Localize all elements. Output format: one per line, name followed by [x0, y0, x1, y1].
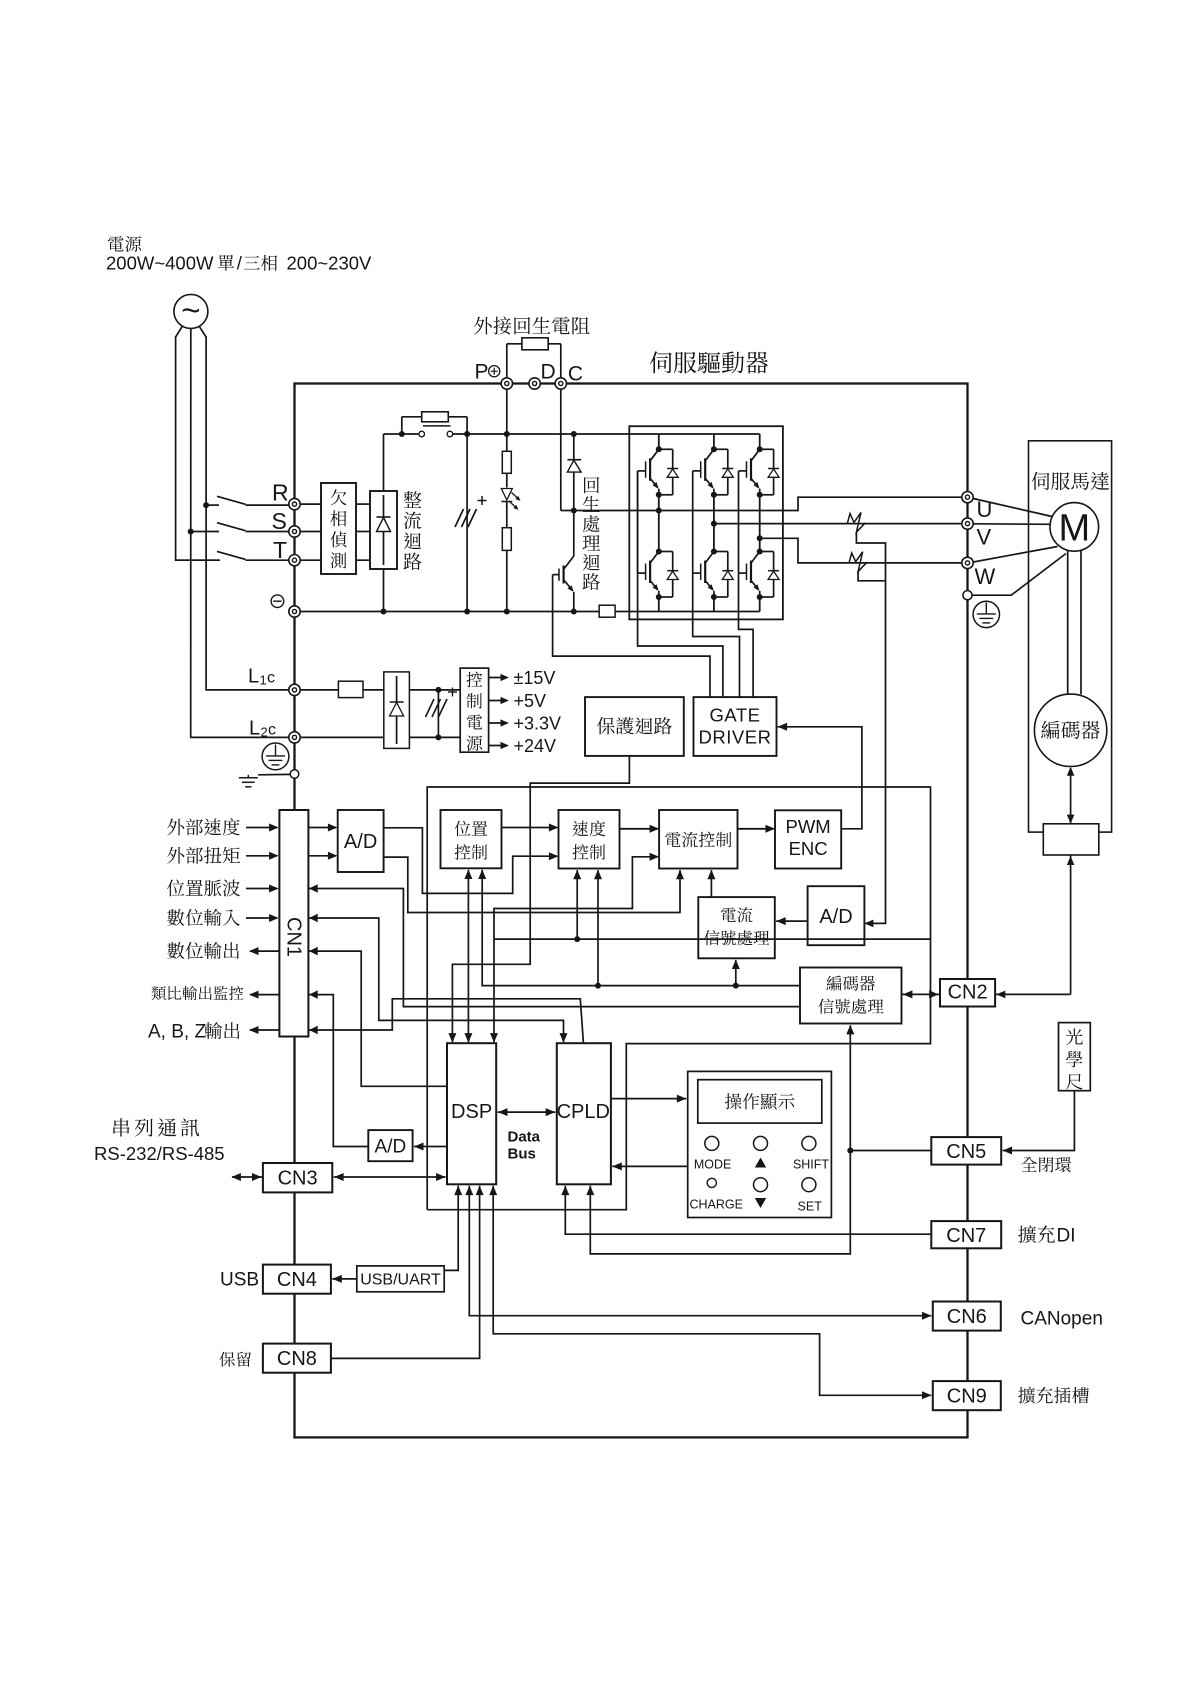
wire encoder processing to CPLD loop: [586, 1025, 854, 1254]
DC bus positive rail: [384, 433, 422, 435]
current sensor square on negative rail: [599, 605, 615, 617]
svg-text:CN6: CN6: [947, 1306, 987, 1328]
svg-text:CN8: CN8: [277, 1348, 317, 1370]
label: power rating 200W~400W 單/三相 200~230V: [106, 253, 214, 274]
wire encoder signal processing to CN2 (bidirectional): [902, 990, 941, 998]
gate wire leg2 to gate driver: [693, 471, 740, 697]
label 外部速度 (external speed input): [167, 818, 240, 835]
wire position control to speed control: [502, 824, 559, 832]
button MODE: [705, 1136, 719, 1150]
control power output +24V: [489, 742, 509, 749]
button UP: [754, 1136, 768, 1150]
node feedback to current signal processing: [733, 983, 739, 989]
switch SW-S (S phase): [191, 523, 289, 532]
protection circuit box 保護迴路: [585, 697, 684, 756]
svg-text:M: M: [1058, 508, 1090, 550]
connector CN9: [933, 1381, 1001, 1410]
wire A/D out ch2 to current control input: [384, 857, 684, 912]
wire from source to S-phase switch and L2c: [191, 329, 289, 738]
external regenerative resistor R-regen: [507, 338, 561, 378]
node U lower collector: [656, 549, 662, 555]
gate wire leg1 to gate driver: [638, 471, 723, 697]
svg-text:PWM: PWM: [785, 816, 830, 837]
wire 外部速度 into CN1: [246, 824, 279, 832]
wire U terminal to motor: [973, 499, 1052, 517]
DC bus negative rail: [300, 611, 760, 613]
node V lower emitter: [711, 594, 717, 600]
switch SW-R (R phase): [206, 496, 289, 505]
inverter leg W: lower IGBT Q6 with freewheel diode: [739, 552, 780, 598]
svg-text:S: S: [272, 508, 287, 534]
node W lower collector: [757, 549, 763, 555]
svg-text:c: c: [268, 722, 276, 739]
wire feedback up to speed control: [573, 870, 581, 939]
svg-text:~: ~: [181, 292, 200, 329]
motor shaft to encoder: [1067, 551, 1069, 695]
wires phase-loss detect to rectifier: [356, 503, 370, 505]
wire control rectifier to control power top: [409, 689, 460, 691]
motor ground terminal: [963, 591, 972, 600]
svg-text:CN5: CN5: [946, 1141, 986, 1163]
svg-text:A/D: A/D: [344, 831, 377, 853]
wire encoder signal processing feedback bus: [482, 870, 800, 986]
DSP box: [447, 1043, 496, 1184]
svg-text:Bus: Bus: [508, 1146, 536, 1163]
wire protection circuit to DSP: [452, 756, 629, 1042]
switch SW-T (T phase): [176, 551, 289, 560]
regen diode D-regen: [567, 434, 581, 556]
label 保留 (reserved): [219, 1352, 251, 1367]
svg-text:DSP: DSP: [451, 1101, 492, 1123]
wire rectifier top to DC bus rail: [383, 434, 385, 491]
node W phase output: [757, 535, 763, 541]
wire encoder feedback to speed control and DSP: [494, 938, 931, 940]
terminal V: [962, 518, 973, 529]
button SET: [802, 1178, 816, 1192]
current shunt sensor on W phase: [849, 552, 867, 572]
wire A,B,Z 輸出 from CN1: [249, 1026, 279, 1034]
svg-text:Data: Data: [508, 1129, 541, 1146]
motor M1 circle: [1050, 503, 1099, 552]
svg-text:P: P: [475, 361, 489, 384]
svg-text:MODE: MODE: [694, 1158, 732, 1172]
label circled minus (negative DC terminal): [271, 595, 284, 608]
wire R terminal to phase-loss detect: [300, 503, 321, 505]
svg-text:c: c: [267, 670, 275, 687]
terminal L1c: [289, 684, 300, 695]
wire control rectifier to control power bottom: [409, 736, 460, 738]
label 數位輸出 (digital output): [167, 942, 239, 959]
svg-text:200~230V: 200~230V: [287, 253, 373, 274]
inverter leg V: upper IGBT Q2 with freewheel diode: [713, 434, 715, 449]
svg-text:L: L: [249, 718, 260, 740]
servo drive enclosure box 伺服驅動器: [295, 384, 968, 1438]
connector CN3: [263, 1163, 332, 1192]
W sense tap wire: [858, 572, 885, 581]
svg-text:C: C: [568, 363, 583, 386]
terminal minus: [289, 606, 300, 617]
A/D converter box (current sense): [808, 886, 865, 945]
encoder circle 編碼器: [1034, 694, 1106, 766]
svg-text:USB: USB: [220, 1270, 259, 1291]
svg-text:2: 2: [261, 725, 268, 740]
wire USB/UART to DSP: [444, 1186, 458, 1271]
wire U leg to negative rail: [658, 597, 660, 612]
svg-text:CN9: CN9: [947, 1386, 987, 1408]
node U upper collector: [656, 446, 662, 452]
connector CN8: [263, 1344, 331, 1373]
label L2c: [249, 718, 276, 740]
svg-text:±15V: ±15V: [514, 668, 556, 688]
soft charge bypass resistor R-charge: [402, 412, 467, 434]
wire W phase to terminal with jog: [760, 538, 962, 563]
svg-text:/: /: [237, 253, 243, 274]
label: 伺服驅動器 servo drive title: [650, 351, 768, 373]
wire encoder interface to CN2: [995, 855, 1074, 998]
node P on DC bus: [504, 431, 510, 437]
wire L2c to control rectifier: [300, 736, 384, 738]
encoder processing wrap bus: [427, 787, 930, 1210]
encoder signal processing box 編碼器信號處理: [800, 968, 902, 1024]
node regen emitter on negative rail: [571, 609, 577, 615]
svg-text:T: T: [273, 537, 287, 563]
gate wire leg3 to gate driver: [739, 471, 754, 697]
aux A/D box (analog monitor): [368, 1130, 412, 1161]
wire current signal processing to current control: [707, 870, 715, 897]
button SHIFT: [802, 1136, 816, 1150]
node V upper collector: [711, 446, 717, 452]
node control cap bottom: [435, 734, 441, 740]
button DOWN: [754, 1178, 768, 1192]
current shunt sensor on V phase: [847, 512, 865, 532]
wire V phase to terminal: [714, 523, 962, 525]
svg-text:R: R: [272, 480, 289, 506]
wire digital output DSP to CN1: [308, 951, 447, 1086]
wire current control to PWM ENC: [738, 825, 776, 833]
down triangle: [755, 1198, 766, 1208]
terminal R: [289, 498, 300, 509]
connector CN2: [940, 979, 995, 1007]
gate driver box U-GD: [694, 697, 777, 756]
node rectifier negative junction: [381, 609, 387, 615]
svg-text:USB/UART: USB/UART: [360, 1272, 441, 1289]
wire CN5 to encoder loop: [850, 1150, 931, 1152]
wire optical scale to CN5: [1003, 1091, 1075, 1155]
display screen 操作顯示: [698, 1080, 822, 1123]
terminal C: [555, 378, 566, 389]
chassis ground terminal below L2c: [290, 770, 299, 779]
svg-text:L: L: [248, 666, 259, 688]
node CN5 tap: [847, 1148, 853, 1154]
inverter leg U: upper IGBT Q1 with freewheel diode: [658, 434, 660, 449]
encoder interface box on motor frame: [1043, 824, 1099, 855]
wire U leg middle: [658, 495, 660, 552]
terminal P: [501, 378, 512, 389]
terminal L2c: [289, 732, 300, 743]
node W upper emitter: [757, 492, 763, 498]
wire CN1 chain down the left edge: [294, 1037, 296, 1164]
label 類比輸出監控 (analog monitor output): [152, 986, 244, 1000]
terminal D: [529, 378, 540, 389]
wire speed control to current control: [620, 825, 660, 833]
wire W terminal to motor: [973, 547, 1057, 563]
label 擴充插槽 expansion slot: [1018, 1387, 1089, 1404]
svg-text:CHARGE: CHARGE: [689, 1198, 742, 1212]
label 位置脈波 (position pulse input): [167, 879, 240, 896]
control power supply box 控制電源 (vertical): [460, 668, 488, 752]
optical scale box 光學尺 (vertical): [1059, 1023, 1091, 1091]
wire W leg to negative rail: [759, 597, 761, 612]
svg-text:W: W: [975, 564, 996, 589]
node regen to C terminal line: [571, 508, 577, 514]
wire RS-232/RS-485 to CN3 (bidirectional): [231, 1173, 263, 1181]
label 數位輸入 (digital input): [167, 909, 240, 926]
wire V terminal to motor: [973, 523, 1050, 526]
node capacitor bottom: [464, 609, 470, 615]
wire analog monitor from aux A/D to CN1: [308, 995, 368, 1147]
servo motor box 伺服馬達: [1029, 441, 1112, 832]
svg-text:DRIVER: DRIVER: [699, 727, 772, 748]
connector CN4: [263, 1265, 331, 1294]
svg-text:A/D: A/D: [375, 1137, 407, 1158]
connector CN1: [279, 810, 308, 1037]
regen transistor Q-regen (IGBT): [553, 556, 574, 612]
terminal S: [289, 526, 300, 537]
terminal T: [289, 555, 300, 566]
wire DSP to CN9: [489, 1186, 931, 1400]
relay contact MC on DC rail: [419, 426, 453, 437]
inverter leg U: lower IGBT Q4 with freewheel diode: [638, 552, 679, 598]
label 擴充DI expansion DI: [0, 0, 1, 1]
wire CPLD to CN7: [561, 1186, 931, 1235]
wire W leg middle: [759, 495, 761, 552]
wire DSP to aux A/D: [414, 1143, 447, 1151]
wire display buttons to CPLD: [612, 1162, 687, 1170]
fuse F1: [338, 681, 363, 697]
wire U phase to terminal with jog: [561, 510, 783, 512]
control rectifier box with diode: [384, 672, 410, 749]
node U phase output: [656, 508, 662, 514]
node: junction of S-phase tap: [188, 529, 194, 535]
wire 數位輸入 into CN1: [246, 914, 279, 922]
rectifier circuit box with diode 整流迴路: [370, 491, 397, 569]
svg-text:A, B, Z: A, B, Z: [148, 1022, 206, 1043]
node divider top: [504, 609, 510, 615]
bleeder divider resistor R2: [502, 528, 511, 551]
wire ground terminal to motor: [972, 554, 1066, 596]
wire C terminal down to U-phase node: [560, 389, 562, 510]
wire 類比輸出監控 from CN1: [249, 991, 279, 999]
wire current A/D to current signal processing: [776, 917, 807, 925]
wire CN1 to A/D channel 2: [308, 852, 337, 860]
label 串列通訊 serial communication: [113, 1118, 199, 1136]
wire 外部扭矩 into CN1: [246, 852, 279, 860]
current control box 電流控制: [659, 810, 737, 869]
node speed feedback tap: [574, 936, 580, 942]
USB/UART box: [357, 1266, 444, 1292]
node W upper collector: [757, 446, 763, 452]
node: junction of R-phase tap: [203, 502, 209, 508]
node V upper emitter: [711, 492, 717, 498]
protective earth symbol (motor side): [973, 601, 999, 627]
node feedback to speed control: [595, 983, 601, 989]
wire 數位輸出 from CN1: [249, 947, 279, 955]
bidirectional arrow encoder to interface: [1067, 767, 1075, 824]
label: 外接回生電阻 external regenerative resistor: [474, 317, 590, 335]
svg-text:SHIFT: SHIFT: [793, 1158, 829, 1172]
label: power source title 電源: [108, 236, 142, 252]
label 全閉環 full closed loop: [1021, 1157, 1071, 1173]
svg-text:+3.3V: +3.3V: [514, 714, 562, 734]
wire CN3 to DSP (bidirectional): [334, 1173, 446, 1181]
V sense tap wire: [856, 532, 885, 923]
wire from source to R-phase switch and L1c: [199, 326, 289, 690]
chassis ground symbol: [239, 775, 258, 787]
svg-text:A/D: A/D: [819, 906, 852, 928]
wire DSP position loop to position control: [464, 870, 472, 1043]
label 外部扭矩 (external torque input): [167, 847, 240, 864]
AC source G1 (single/three phase supply): [174, 292, 208, 329]
node V phase output: [711, 521, 717, 527]
wire CN1 to A/D channel 1: [308, 824, 337, 832]
label 伺服馬達: [1031, 472, 1109, 490]
terminal U: [962, 492, 973, 503]
node W lower emitter: [757, 594, 763, 600]
svg-text:D: D: [541, 361, 556, 384]
wire from source to T-phase switch (leftmost): [176, 326, 220, 560]
svg-text:CANopen: CANopen: [1021, 1309, 1103, 1330]
wire rectifier bottom to negative rail: [383, 569, 385, 612]
up triangle: [755, 1158, 766, 1168]
PWM ENC box: [775, 810, 841, 868]
wire fuse to control rectifier: [363, 689, 384, 691]
svg-text:1: 1: [260, 673, 267, 688]
charge LED D-led: [501, 488, 521, 510]
svg-text:V: V: [977, 525, 992, 550]
control filter capacitor C2: [426, 688, 458, 738]
wire PWM ENC to GATE DRIVER: [778, 723, 862, 829]
label P with circled plus: [475, 361, 500, 384]
terminal W: [962, 557, 973, 568]
connector CN7: [931, 1221, 1001, 1248]
wire L1c to fuse: [300, 689, 338, 691]
main capacitor bank C1 (electrolytic): [455, 434, 487, 612]
inverter leg V: lower IGBT Q5 with freewheel diode: [693, 552, 734, 598]
node V lower collector: [711, 549, 717, 555]
wire CN8 to DSP: [331, 1186, 480, 1359]
IGBT inverter bridge module box: [629, 426, 783, 619]
node regen top on DC bus: [571, 431, 577, 437]
svg-text:DI: DI: [1057, 1226, 1076, 1247]
svg-text:+24V: +24V: [514, 736, 557, 756]
svg-text:SET: SET: [798, 1200, 823, 1214]
wire V leg to negative rail: [713, 597, 715, 612]
wire A/D out ch1 to speed control input: [384, 828, 559, 894]
speed control box 速度控制: [559, 810, 620, 869]
A/D converter box (analog input): [338, 810, 384, 872]
control power output +3.3V: [489, 719, 509, 726]
control power output +5V: [489, 697, 509, 704]
wire to chassis ground: [258, 773, 290, 775]
wire S terminal to phase-loss detect: [300, 531, 321, 533]
wire P terminal to DC bus: [506, 389, 508, 434]
node U lower emitter: [656, 594, 662, 600]
node control cap top: [435, 687, 441, 693]
svg-text:GATE: GATE: [710, 705, 761, 726]
connector CN6: [933, 1302, 1001, 1331]
position control box 位置控制: [441, 810, 502, 868]
svg-text:CN1: CN1: [283, 917, 305, 957]
LED CHARGE: [707, 1178, 716, 1187]
label 回生處理迴路 (vertical): [584, 477, 599, 493]
svg-text:CPLD: CPLD: [557, 1101, 610, 1123]
bleeder divider resistor R1 on DC bus with LED indicator: [506, 434, 508, 612]
svg-text:CN7: CN7: [946, 1225, 986, 1247]
svg-text:+5V: +5V: [514, 691, 547, 711]
label 整流迴路 (vertical): [404, 491, 422, 508]
node soft-charge right: [464, 431, 470, 437]
node U upper emitter: [656, 492, 662, 498]
wire digital input to CPLD: [308, 914, 567, 1043]
connector CN5: [931, 1137, 1001, 1165]
svg-text:CN4: CN4: [277, 1269, 317, 1291]
wire A B Z output from CPLD to CN1: [308, 999, 583, 1043]
wire T terminal to phase-loss detect: [300, 559, 321, 561]
operation display panel box: [688, 1071, 832, 1217]
wire USB/UART to CN4: [332, 1275, 357, 1283]
wire CPLD to display: [611, 1095, 686, 1103]
label L1c: [248, 666, 275, 688]
node soft-charge left: [399, 431, 405, 437]
svg-text:200W~400W: 200W~400W: [106, 253, 214, 274]
CPLD box: [557, 1043, 611, 1184]
label Data Bus: [508, 1129, 541, 1163]
wire DSP to current control (torque reference): [490, 853, 659, 1043]
svg-text:RS-232/RS-485: RS-232/RS-485: [94, 1143, 225, 1164]
control power output +15V: [489, 674, 509, 681]
wire DSP to CN6: [465, 1186, 931, 1320]
label A,B,Z 輸出 (encoder output): [148, 1022, 206, 1043]
protective earth circle symbol: [262, 743, 289, 770]
svg-text:CN3: CN3: [278, 1168, 318, 1190]
current signal processing box 電流信號處理: [698, 897, 775, 958]
wire V leg middle: [713, 495, 715, 552]
svg-text:CN2: CN2: [948, 982, 988, 1004]
data bus between DSP and CPLD: [498, 1108, 556, 1116]
svg-text:ENC: ENC: [789, 838, 828, 859]
wire position pulse to encoder signal processing: [308, 889, 800, 1007]
wire 位置脈波 into CN1: [246, 885, 279, 893]
wire regen gate to gate driver: [553, 575, 710, 698]
inverter leg W: upper IGBT Q3 with freewheel diode: [759, 434, 761, 449]
phase loss detection box 欠相偵測: [321, 483, 356, 574]
